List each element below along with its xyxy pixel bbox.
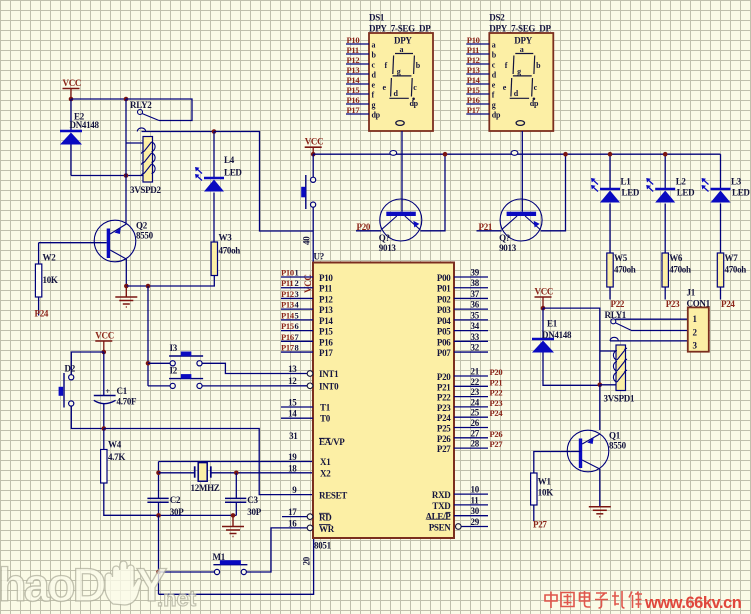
pin g	[346, 103, 369, 105]
diode E2 DN4148	[70, 99, 72, 130]
wire CON1 pin2	[631, 330, 688, 332]
svg-text:P23: P23	[437, 403, 451, 413]
svg-text:www.66kv.cn: www.66kv.cn	[644, 594, 742, 612]
svg-text:P00: P00	[437, 273, 451, 283]
svg-text:P12: P12	[467, 55, 480, 65]
pin 2 P11	[281, 287, 313, 289]
junction	[69, 97, 74, 102]
svg-text:P21: P21	[490, 377, 503, 387]
svg-text:T1: T1	[320, 403, 331, 413]
svg-text:DPY: DPY	[514, 36, 532, 46]
junction	[124, 173, 129, 178]
wire gnd stem	[125, 286, 127, 297]
svg-text:3: 3	[295, 289, 299, 299]
LED L1 body	[600, 188, 620, 191]
svg-text:P26: P26	[490, 429, 503, 439]
pin 21 P20	[454, 375, 488, 377]
pin 33 P06	[454, 340, 488, 342]
svg-text:470oh: 470oh	[669, 265, 691, 275]
wire hop	[511, 151, 518, 156]
svg-text:P13: P13	[467, 65, 480, 75]
wire VCC stem	[312, 147, 314, 154]
junction	[146, 361, 151, 366]
pin 25 P24	[454, 416, 488, 418]
svg-text:I3: I3	[170, 343, 178, 353]
junction	[443, 152, 448, 157]
svg-text:D2: D2	[65, 364, 76, 374]
svg-text:P15: P15	[347, 85, 360, 95]
resistor W2 body	[35, 264, 41, 297]
svg-text:P07: P07	[437, 348, 451, 358]
svg-text:5: 5	[295, 310, 299, 320]
wire VCC to coil	[543, 308, 600, 385]
pin c	[346, 63, 369, 65]
junction	[146, 284, 151, 289]
svg-text:10K: 10K	[43, 275, 58, 285]
svg-text:2: 2	[295, 278, 299, 288]
7-seg glyph	[510, 54, 535, 99]
svg-text:DPY: DPY	[394, 36, 412, 46]
svg-text:P11: P11	[281, 278, 293, 288]
wire CON1 pin3	[610, 340, 688, 342]
svg-text:P22: P22	[437, 393, 451, 403]
wire X1 net	[159, 461, 314, 463]
svg-text:19: 19	[288, 452, 297, 462]
ground (below Q2)	[115, 297, 137, 307]
wire gnd stem	[232, 515, 234, 526]
junction	[156, 471, 161, 476]
svg-text:P17: P17	[467, 105, 481, 115]
svg-text:P16: P16	[281, 332, 294, 342]
svg-text:P25: P25	[437, 424, 451, 434]
svg-text:g: g	[517, 67, 521, 76]
svg-text:P22: P22	[490, 388, 503, 398]
pin 16 WR	[307, 525, 313, 531]
wire W3 to ground rail	[213, 276, 215, 287]
svg-text:a: a	[372, 41, 376, 50]
relay armature arc	[137, 128, 145, 132]
svg-text:INT1: INT1	[319, 369, 339, 379]
LED L2 body	[655, 188, 675, 191]
wire to I3	[148, 362, 171, 364]
svg-text:L3: L3	[731, 177, 742, 187]
svg-text:P24: P24	[437, 413, 451, 423]
svg-text:P20: P20	[490, 367, 503, 377]
pin 1 P10	[281, 276, 313, 278]
svg-text:INT0: INT0	[319, 381, 339, 391]
pin e	[466, 83, 489, 85]
pin f	[346, 93, 369, 95]
wire W1 to P27	[533, 505, 535, 521]
svg-text:9013: 9013	[379, 243, 397, 253]
svg-text:13: 13	[288, 364, 297, 374]
svg-text:26: 26	[471, 418, 480, 428]
resistor W4 body	[101, 450, 107, 484]
svg-text:P17: P17	[347, 105, 361, 115]
wire to crystal	[159, 472, 195, 474]
svg-text:a: a	[400, 45, 404, 54]
svg-text:L1: L1	[621, 177, 632, 187]
resistor W6 470oh	[662, 253, 668, 287]
pin 35 P04	[454, 319, 488, 321]
svg-text:RESET: RESET	[319, 491, 347, 501]
svg-text:TXD: TXD	[432, 501, 451, 511]
pin 26 P25	[454, 427, 488, 429]
svg-text:haoD: haoD	[0, 558, 105, 611]
svg-text:DN4148: DN4148	[542, 330, 572, 340]
junction	[124, 97, 129, 102]
pin d	[346, 73, 369, 75]
svg-text:VCC: VCC	[535, 287, 554, 297]
pin 37 P02	[454, 297, 488, 299]
svg-text:dp: dp	[492, 111, 501, 120]
wire coil top pin	[600, 350, 616, 352]
pin 5 P14	[281, 319, 313, 321]
wire hop	[390, 151, 397, 156]
LED L4 body	[204, 177, 224, 180]
svg-text:34: 34	[471, 321, 480, 331]
svg-text:4.7K: 4.7K	[108, 452, 125, 462]
wire to coil	[71, 175, 143, 177]
svg-text:P27: P27	[490, 439, 504, 449]
svg-text:P17: P17	[319, 348, 333, 358]
wire reset net to pin 9	[104, 429, 313, 495]
pin dp	[346, 113, 369, 115]
svg-text:8051: 8051	[314, 541, 332, 551]
pin 32 P07	[454, 351, 488, 353]
wire to I2	[148, 385, 171, 387]
svg-text:T0: T0	[320, 414, 331, 424]
junction	[156, 570, 161, 575]
svg-text:RD: RD	[319, 513, 332, 523]
pin c	[466, 63, 489, 65]
resistor W1 10K	[531, 473, 537, 505]
svg-text:21: 21	[471, 367, 480, 377]
LED L4	[213, 132, 215, 178]
wire X2 down	[235, 473, 237, 498]
svg-text:470oh: 470oh	[725, 265, 747, 275]
pin b	[346, 53, 369, 55]
svg-text:ALE/P: ALE/P	[425, 512, 451, 522]
svg-text:RXD: RXD	[432, 490, 451, 500]
pushbutton (pin40)	[312, 154, 314, 177]
svg-text:P14: P14	[319, 316, 333, 326]
pin a	[466, 43, 489, 45]
pin 12 INT0	[307, 383, 313, 389]
svg-text:DPY_7-SEG_DP: DPY_7-SEG_DP	[489, 24, 551, 34]
svg-text:P17: P17	[281, 343, 295, 353]
svg-text:P10: P10	[281, 268, 294, 278]
svg-text:12MHZ: 12MHZ	[191, 483, 220, 493]
junction	[102, 350, 107, 355]
LED L3	[720, 154, 722, 188]
svg-text:25: 25	[471, 408, 480, 418]
svg-text:6: 6	[295, 321, 299, 331]
pin 34 P05	[454, 330, 488, 332]
wire LED to resistor	[720, 204, 722, 254]
svg-text:DS1: DS1	[369, 13, 385, 23]
svg-text:W4: W4	[108, 440, 122, 450]
svg-text:J1: J1	[687, 288, 696, 298]
svg-text:W3: W3	[219, 233, 233, 243]
wire to pin 40 net	[214, 132, 313, 232]
wire LED to resistor	[609, 204, 611, 254]
pin 11 TXD	[454, 504, 488, 506]
svg-text:LED: LED	[224, 168, 242, 178]
svg-text:8550: 8550	[136, 231, 154, 241]
pin 10 RXD	[454, 493, 488, 495]
LED L3 body	[711, 188, 731, 191]
pin d	[466, 73, 489, 75]
svg-text:RLY2: RLY2	[130, 100, 152, 110]
svg-text:30: 30	[471, 506, 480, 516]
svg-text:P06: P06	[437, 337, 451, 347]
ground (below Q1)	[589, 507, 611, 517]
svg-text:g: g	[492, 101, 496, 110]
svg-text:P12: P12	[319, 294, 333, 304]
svg-text:X1: X1	[320, 457, 331, 467]
wire to P23	[664, 287, 666, 300]
wire Q1 collector	[599, 469, 601, 507]
svg-text:22: 22	[471, 377, 480, 387]
junction	[608, 152, 613, 157]
pin 22 P21	[454, 385, 488, 387]
resistor W5 470oh	[607, 253, 613, 287]
pushbutton I2	[169, 378, 203, 380]
svg-text:W2: W2	[43, 253, 57, 263]
wire Q1 base	[534, 452, 581, 474]
wire gnd branch down	[147, 286, 149, 386]
pin 17 RD	[282, 516, 307, 518]
svg-text:37: 37	[471, 289, 480, 299]
wire VCC stem	[70, 89, 72, 100]
svg-text:31: 31	[289, 431, 298, 441]
svg-text:P26: P26	[437, 434, 451, 444]
resistor W2 10K	[38, 243, 40, 264]
wire L4 to W3	[213, 193, 215, 243]
IC U? 8051	[313, 263, 454, 539]
ground (below crystal)	[222, 527, 244, 537]
wire I3 to INT1	[202, 363, 307, 373]
svg-text:VCC: VCC	[95, 331, 114, 341]
pin f	[466, 93, 489, 95]
svg-text:+: +	[106, 387, 111, 396]
svg-text:36: 36	[471, 300, 480, 310]
svg-text:P11: P11	[347, 45, 359, 55]
relay coil 3VSPD1	[616, 345, 626, 391]
svg-text:11: 11	[471, 495, 480, 505]
capacitor C2 30P	[147, 498, 168, 502]
wire to Q2 emitter	[125, 176, 127, 225]
svg-text:C1: C1	[117, 386, 128, 396]
svg-text:P22: P22	[611, 299, 625, 309]
svg-text:P13: P13	[347, 65, 360, 75]
crystal 12MHZ	[194, 466, 196, 477]
svg-text:dp: dp	[410, 99, 419, 108]
svg-text:P14: P14	[281, 310, 295, 320]
transistor Q? 9013 (left)	[380, 199, 422, 241]
svg-text:17: 17	[288, 507, 297, 517]
pin a	[346, 43, 369, 45]
svg-text:20: 20	[302, 556, 312, 565]
svg-text:15: 15	[288, 398, 297, 408]
svg-text:18: 18	[288, 463, 297, 473]
relay contact RLY2	[126, 99, 192, 121]
wire to P24	[720, 287, 722, 300]
junction	[212, 129, 217, 134]
wire gnd rail 2	[104, 514, 237, 516]
svg-text:40: 40	[302, 236, 312, 245]
svg-text:L4: L4	[224, 155, 235, 165]
pin 8 P17	[281, 351, 313, 353]
wire coil top pin	[126, 142, 143, 144]
svg-text:P16: P16	[319, 337, 333, 347]
svg-text:L2: L2	[676, 177, 687, 187]
svg-text:Q2: Q2	[136, 221, 148, 231]
wire I2 to INT0	[202, 385, 307, 387]
pin dp	[466, 113, 489, 115]
pushbutton D2 (vertical)	[63, 373, 65, 408]
wire E2 anode	[70, 145, 72, 176]
svg-text:g: g	[372, 101, 376, 110]
wire coil bottom pin	[600, 384, 616, 386]
junction	[124, 284, 129, 289]
wire to P22	[609, 287, 611, 300]
watermark 66kv.cn	[545, 591, 642, 608]
svg-text:470oh: 470oh	[614, 265, 636, 275]
wire collector to rail	[420, 154, 445, 231]
svg-text:LED: LED	[677, 188, 695, 198]
svg-text:33: 33	[471, 332, 480, 342]
junction	[563, 152, 568, 157]
pin 24 P23	[454, 406, 488, 408]
capacitor C3 30P	[225, 498, 246, 502]
wire DS1 to Q base	[401, 131, 403, 212]
svg-text:P21: P21	[437, 382, 451, 392]
svg-text:P10: P10	[347, 35, 360, 45]
svg-text:10: 10	[471, 485, 480, 495]
wire VCC to RLY2	[71, 98, 126, 100]
svg-text:P24: P24	[35, 309, 49, 319]
junction	[231, 513, 236, 518]
svg-text:30P: 30P	[247, 507, 261, 517]
svg-text:12: 12	[288, 376, 297, 386]
svg-text:W5: W5	[614, 253, 628, 263]
pin 23 P22	[454, 396, 488, 398]
svg-text:P02: P02	[437, 294, 451, 304]
svg-text:P15: P15	[319, 327, 333, 337]
svg-text:W6: W6	[669, 253, 683, 263]
svg-text:24: 24	[471, 397, 480, 407]
wire RLY2 branch down	[125, 99, 127, 176]
LED L1	[609, 154, 611, 188]
wire CON1 pin1	[616, 318, 688, 320]
wire to D2	[71, 352, 104, 375]
pin b	[466, 53, 489, 55]
wire E1 anode	[543, 353, 600, 386]
wire W4 to gnd rail	[104, 483, 159, 515]
svg-text:dp: dp	[372, 111, 381, 120]
svg-text:P05: P05	[437, 327, 451, 337]
wire M1 to WR	[247, 528, 308, 572]
LED L2	[664, 154, 666, 188]
pin 28 P27	[454, 447, 488, 449]
svg-text:P16: P16	[467, 95, 480, 105]
svg-text:DPY_7-SEG_DP: DPY_7-SEG_DP	[369, 24, 431, 34]
svg-text:DN4148: DN4148	[70, 120, 100, 130]
wire coil to Q1 emitter	[599, 385, 601, 430]
svg-text:P24: P24	[490, 408, 504, 418]
junction	[311, 152, 316, 157]
junction	[598, 383, 603, 388]
svg-text:U?: U?	[314, 252, 324, 262]
transistor Q1 8550	[567, 430, 609, 472]
svg-text:P15: P15	[281, 321, 294, 331]
wire X2 net	[211, 472, 313, 474]
svg-text:3VSPD1: 3VSPD1	[604, 394, 636, 404]
capacitor C1 4.70F	[103, 352, 105, 395]
svg-text:P13: P13	[281, 300, 294, 310]
svg-text:W1: W1	[538, 477, 552, 487]
svg-text:P11: P11	[319, 284, 333, 294]
relay armature arc	[610, 337, 618, 341]
wire Q2 base	[39, 242, 107, 244]
svg-text:P12: P12	[347, 55, 360, 65]
wire W2 to P24	[38, 297, 40, 316]
pin 36 P03	[454, 308, 488, 310]
svg-text:E1: E1	[547, 319, 558, 329]
wire VCC stem	[103, 341, 105, 352]
7-seg glyph	[389, 54, 414, 99]
diode E1 DN4148	[542, 308, 544, 338]
diode E1 body	[532, 338, 554, 341]
junction	[234, 471, 239, 476]
wire collector to rail	[541, 154, 566, 231]
svg-text:P14: P14	[347, 75, 361, 85]
svg-text:29: 29	[471, 517, 480, 527]
svg-text:P23: P23	[666, 299, 680, 309]
svg-text:23: 23	[471, 387, 480, 397]
svg-text:9013: 9013	[499, 243, 517, 253]
svg-text:16: 16	[288, 518, 297, 528]
wire down to bottom rail	[158, 515, 160, 594]
pin e	[346, 83, 369, 85]
pin 3 P12	[281, 297, 313, 299]
resistor W7 470oh	[717, 253, 723, 287]
svg-text:P10: P10	[467, 35, 480, 45]
wire DS2 to Q base	[521, 131, 523, 212]
pin 7 P16	[281, 340, 313, 342]
svg-text:PSEN: PSEN	[429, 523, 452, 533]
junction	[541, 306, 546, 311]
wire relay common	[142, 131, 215, 133]
svg-text:P01: P01	[437, 284, 451, 294]
svg-text:C3: C3	[247, 495, 258, 505]
svg-text:W7: W7	[725, 253, 739, 263]
resistor W3 470oh	[211, 242, 217, 276]
pin 27 P26	[454, 437, 488, 439]
wire emitter stub P20	[356, 230, 381, 232]
svg-text:8: 8	[295, 343, 299, 353]
pin 38 P01	[454, 287, 488, 289]
svg-text:28: 28	[471, 439, 480, 449]
svg-text:P23: P23	[490, 398, 503, 408]
pin 6 P15	[281, 330, 313, 332]
junction	[156, 513, 161, 518]
svg-text:P27: P27	[437, 444, 451, 454]
svg-text:4.70F: 4.70F	[117, 397, 138, 407]
pin 4 P13	[281, 308, 313, 310]
